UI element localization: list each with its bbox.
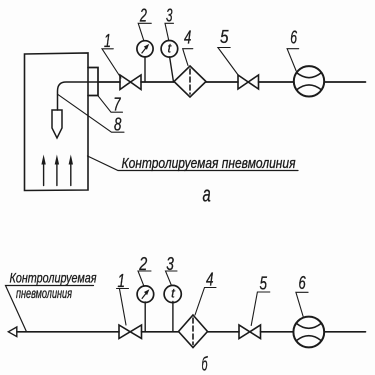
- svg-text:8: 8: [114, 114, 121, 134]
- svg-text:1: 1: [118, 271, 126, 291]
- svg-text:3: 3: [166, 254, 174, 274]
- svg-text:Контролируемая пневмолиния: Контролируемая пневмолиния: [122, 156, 296, 172]
- svg-text:3: 3: [166, 5, 173, 25]
- svg-text:4: 4: [206, 270, 214, 290]
- svg-text:5: 5: [220, 27, 229, 47]
- svg-text:2: 2: [138, 254, 147, 274]
- svg-text:6: 6: [290, 28, 297, 48]
- svg-text:t: t: [168, 41, 173, 56]
- svg-text:1: 1: [104, 31, 111, 51]
- svg-text:7: 7: [113, 95, 121, 115]
- svg-text:Контролируемая: Контролируемая: [10, 270, 97, 286]
- svg-text:а: а: [203, 182, 211, 207]
- svg-text:6: 6: [299, 273, 307, 293]
- svg-text:5: 5: [260, 274, 268, 294]
- svg-text:4: 4: [184, 28, 191, 48]
- svg-text:пневмолиния: пневмолиния: [16, 285, 72, 301]
- svg-text:t: t: [171, 285, 176, 300]
- svg-text:б: б: [202, 355, 209, 375]
- svg-text:2: 2: [139, 5, 147, 25]
